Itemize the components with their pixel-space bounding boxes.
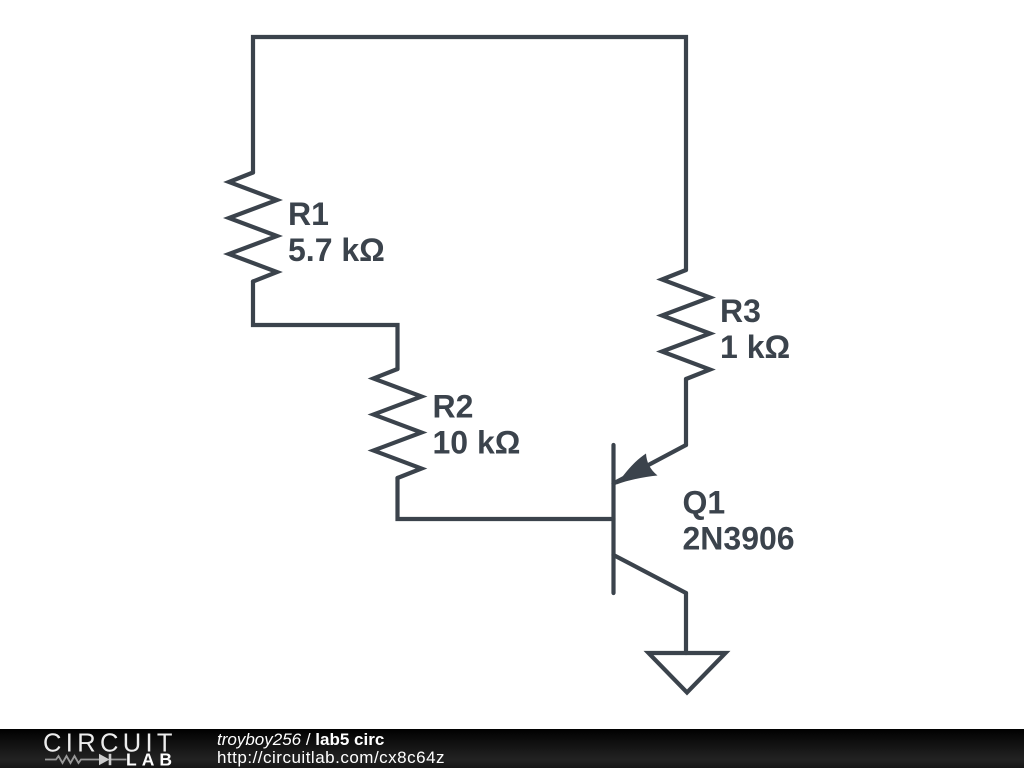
resistor R3 xyxy=(662,270,710,379)
footer bar xyxy=(0,729,1024,768)
logo resistor+diode glyph xyxy=(45,756,127,763)
svg-text:10 kΩ: 10 kΩ xyxy=(433,425,521,461)
ground xyxy=(649,653,726,693)
resistor R1 xyxy=(229,173,277,282)
svg-text:R2: R2 xyxy=(433,389,474,425)
attribution url xyxy=(217,748,445,768)
svg-text:1 kΩ: 1 kΩ xyxy=(720,329,790,365)
svg-text:R1: R1 xyxy=(288,196,329,232)
transistor Q1 (2N3906 PNP): base bar xyxy=(611,445,615,593)
wire: R1 bottom to R2 top xyxy=(253,282,398,370)
wire: R3 bottom to Q1 emitter xyxy=(684,379,688,445)
svg-text:R3: R3 xyxy=(720,293,761,329)
resistor R2 xyxy=(374,369,422,478)
svg-text:LAB: LAB xyxy=(126,750,177,768)
svg-text:5.7 kΩ: 5.7 kΩ xyxy=(288,232,385,268)
attribution text xyxy=(217,730,384,750)
wire: Q1 collector to ground xyxy=(684,593,688,653)
svg-text:2N3906: 2N3906 xyxy=(683,521,795,557)
transistor Q1: emitter arrowhead xyxy=(617,454,658,485)
CircuitLab logo xyxy=(40,729,180,768)
svg-text:Q1: Q1 xyxy=(683,485,726,521)
transistor Q1: emitter diagonal xyxy=(614,445,687,484)
wire: R2 bottom to Q1 base xyxy=(398,478,614,519)
transistor Q1: collector diagonal xyxy=(614,555,687,593)
wire: top rail from R1 top to R3 top xyxy=(253,37,686,270)
